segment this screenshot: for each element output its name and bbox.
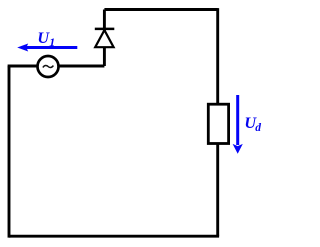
load resistor rectangle [208, 104, 228, 143]
diode V1 triangle (anode, pointing up) [95, 30, 113, 47]
wire diode branch vertical [103, 10, 106, 67]
wire left rail [8, 66, 11, 238]
AC source tilde symbol [43, 65, 53, 67]
U1 voltage arrow (pointing left) [26, 46, 77, 49]
wire right rail [216, 8, 219, 236]
Ud voltage arrow (pointing down) [236, 95, 239, 145]
diode V1 cathode bar [95, 28, 115, 31]
svg-text:d: d [255, 122, 261, 134]
Ud arrowhead [233, 144, 243, 154]
wire source row (left rail to diode branch) [8, 65, 105, 68]
U1 arrowhead [17, 44, 28, 52]
wire top (cathode to right rail) [104, 8, 217, 11]
AC source circle [38, 56, 59, 77]
svg-text:1: 1 [49, 35, 55, 49]
wire bottom [9, 235, 219, 238]
